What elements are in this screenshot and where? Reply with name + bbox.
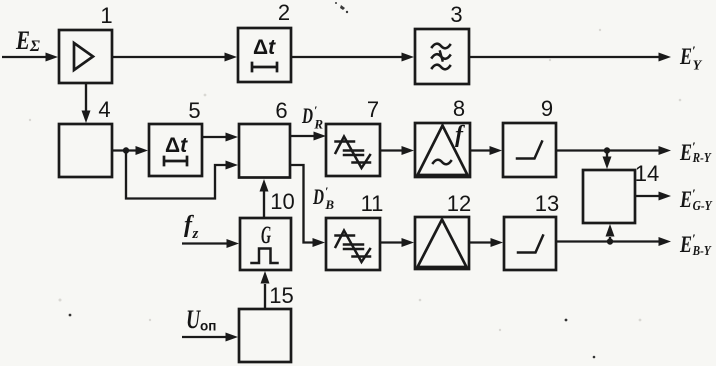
block 5 box (delay line) xyxy=(149,124,202,176)
block 7 limiter sine symbol xyxy=(336,137,371,169)
wire block 12 to block 13 xyxy=(469,241,492,243)
block 11 box (amplitude limiter) xyxy=(326,218,380,270)
block 14 box (matrix) xyxy=(583,170,635,223)
arrowhead E'_B-Y xyxy=(659,237,672,246)
block 2 delay bar symbol xyxy=(252,63,277,71)
wire block 3 to E'_Y output xyxy=(469,56,659,58)
wire block 1 to block 2 xyxy=(112,56,226,58)
svg-text:Δt: Δt xyxy=(253,36,276,59)
arrowhead into block 1 xyxy=(46,53,59,62)
svg-text:G: G xyxy=(261,222,271,249)
wire block 1 down to block 4 xyxy=(85,83,87,112)
block 13 characteristic symbol xyxy=(518,236,543,253)
svg-text:1: 1 xyxy=(100,3,112,28)
junction node after block 4 xyxy=(123,147,129,153)
arrowhead into block 10 from f_z xyxy=(227,239,240,248)
arrowhead into block 13 xyxy=(491,238,504,247)
wire block 9 to E'_R-Y output xyxy=(556,149,659,151)
arrowhead into block 11 xyxy=(313,238,326,247)
faint paper speckles xyxy=(29,29,682,331)
arrowhead E'_Y xyxy=(659,53,672,62)
svg-text:13: 13 xyxy=(535,191,559,216)
arrowhead into block 4 xyxy=(82,111,91,124)
paper speckle top xyxy=(335,2,348,13)
arrowhead into block 7 xyxy=(314,132,327,141)
svg-text:U: U xyxy=(186,305,201,334)
svg-text:3: 3 xyxy=(450,2,462,27)
arrowhead into block 9 xyxy=(490,146,503,155)
wire block 8 to block 9 xyxy=(470,149,491,151)
block 5 delay bar symbol xyxy=(164,157,187,165)
wire block 11 to block 12 xyxy=(380,241,403,243)
svg-text:2: 2 xyxy=(278,0,290,25)
block 8 tilde xyxy=(433,160,451,165)
arrowhead into block 15 from U_op xyxy=(226,333,239,342)
svg-text:8: 8 xyxy=(453,96,465,121)
arrowhead into block 8 xyxy=(402,146,415,155)
wire bypass from node to block 6 lower input xyxy=(126,151,227,199)
svg-text:4: 4 xyxy=(98,97,110,122)
block 10 box (gate pulse generator) xyxy=(240,218,291,270)
junction node on E'_B-Y line xyxy=(607,238,613,244)
block 3 box (notch filter) xyxy=(415,29,469,84)
junction node on E'_R-Y line xyxy=(604,147,610,153)
svg-text:12: 12 xyxy=(447,191,471,216)
block 8 triangle xyxy=(418,126,468,176)
block 1 amplifier triangle xyxy=(74,43,93,70)
arrowhead into block 2 xyxy=(225,53,238,62)
wire node to block 14 top xyxy=(606,151,608,158)
wire block 7 to block 8 xyxy=(380,149,403,151)
arrowhead into block 10 bottom from block 15 xyxy=(261,271,270,284)
block 10 pulse symbol xyxy=(252,249,278,264)
svg-text:оп: оп xyxy=(200,319,216,334)
wire block 14 to E'_G-Y output xyxy=(635,195,659,197)
block 12 box (detector) xyxy=(415,217,469,269)
arrowhead into block 3 xyxy=(402,53,415,62)
block 11 limiter sine symbol xyxy=(336,231,371,263)
arrowhead into block 12 xyxy=(402,238,415,247)
wire block 6 to block 7 (D'_R) xyxy=(290,135,314,137)
wire node to block 14 bottom xyxy=(609,237,611,242)
arrowhead into block 5 xyxy=(136,146,149,155)
wire block 10 up to block 6 xyxy=(263,191,265,218)
svg-text:9: 9 xyxy=(541,96,553,121)
wire E_sum input to block 1 xyxy=(2,56,47,58)
block 2 box (delay line) xyxy=(238,28,291,82)
svg-text:6: 6 xyxy=(275,98,287,123)
arrowhead into block 6 upper xyxy=(226,133,239,142)
arrowhead E'_R-Y xyxy=(659,146,672,155)
svg-text:Δt: Δt xyxy=(165,134,188,157)
svg-text:14: 14 xyxy=(635,161,659,186)
block 9 characteristic symbol xyxy=(517,142,542,159)
svg-text:15: 15 xyxy=(269,283,293,308)
wire f_z input to block 10 xyxy=(182,242,228,244)
svg-text:7: 7 xyxy=(367,97,379,122)
wire block 4 to block 5 xyxy=(112,149,137,151)
wire U_op input to block 15 xyxy=(182,336,226,338)
block 3 tildes xyxy=(432,44,450,49)
block 13 box (clamp) xyxy=(504,217,556,270)
svg-text:10: 10 xyxy=(270,189,294,214)
wire block 15 up to block 10 xyxy=(264,284,266,309)
arrowhead into block 6 lower xyxy=(226,161,239,170)
block 9 box (clamp) xyxy=(503,123,556,177)
block 7 box (amplitude limiter) xyxy=(326,124,380,176)
wire block 2 to block 3 xyxy=(291,56,403,58)
block 1 box (amplifier) xyxy=(59,30,112,83)
svg-text:11: 11 xyxy=(361,191,384,216)
arrowhead E'_G-Y xyxy=(659,192,672,201)
arrowhead into block 6 bottom from block 10 xyxy=(260,179,269,192)
wire block 6 to block 11 (D'_B) xyxy=(290,165,314,243)
arrowhead into block 14 bottom xyxy=(606,224,615,237)
block 6 box xyxy=(239,124,290,178)
wire block 5 to block 6 upper input xyxy=(202,136,227,138)
block 3 slash over middle tilde xyxy=(440,52,443,61)
block 15 box (reference) xyxy=(239,309,291,362)
wire block 13 to E'_B-Y output xyxy=(556,240,659,242)
svg-text:5: 5 xyxy=(188,98,200,123)
block 4 box xyxy=(59,124,112,177)
arrowhead into block 14 top xyxy=(603,157,612,170)
block 8 box (frequency detector) xyxy=(415,123,470,177)
block 12 triangle xyxy=(418,220,467,268)
